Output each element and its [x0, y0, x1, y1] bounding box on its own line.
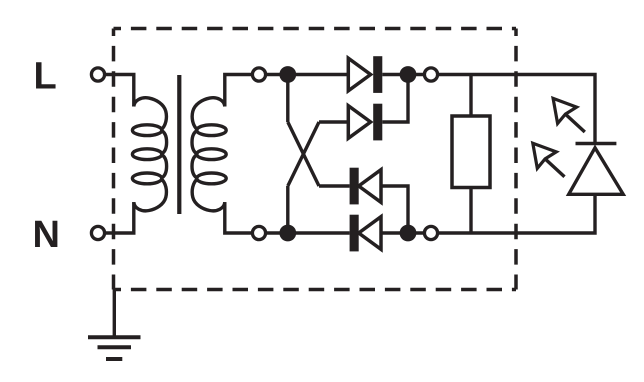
wire secondary bottom to bridge: [225, 202, 350, 233]
wire D3 anode down to node minus: [381, 186, 408, 233]
resistor R1 body: [452, 116, 490, 188]
diode D4 triangle: [359, 217, 381, 250]
wire D2 cathode up to node plus: [382, 75, 408, 123]
diode D3 triangle: [359, 170, 381, 203]
diode D1 cathode bar: [373, 56, 382, 93]
LED D5 triangle: [569, 148, 624, 195]
junction dot node plus: [400, 66, 417, 83]
transformer core: [177, 75, 181, 214]
transformer T1 secondary winding: [192, 98, 226, 211]
transformer T1 primary winding: [132, 98, 166, 211]
terminal output plus: [424, 68, 437, 81]
wire to D3 cathode: [319, 184, 350, 187]
wire crossover diagonal A: [288, 122, 319, 186]
ground bar 3: [106, 357, 122, 361]
junction dot node minus: [400, 225, 417, 242]
ground bar 1: [88, 335, 141, 339]
LED light arrow 2 head: [533, 143, 557, 168]
terminal N: [91, 226, 104, 239]
LED light arrow 2 shaft: [545, 159, 564, 177]
wire to D2 anode: [319, 120, 348, 123]
ground stem: [113, 290, 116, 338]
LED light arrow 1 head: [553, 98, 577, 123]
wire L lead: [105, 75, 134, 107]
wire D4 anode to node minus: [381, 231, 408, 234]
dashed enclosure box: [114, 29, 517, 290]
diode D4 cathode bar: [350, 215, 359, 252]
wire crossover bottom-left vertical: [286, 186, 289, 233]
ground bar 2: [98, 345, 132, 349]
wire negative rail: [408, 194, 595, 233]
svg-text:N: N: [33, 214, 60, 256]
diode D1 triangle: [348, 58, 370, 91]
diode D2 triangle: [348, 106, 370, 139]
terminal L: [91, 68, 104, 81]
terminal secondary bottom: [252, 226, 265, 239]
junction dot top AC node: [279, 66, 296, 83]
svg-text:L: L: [34, 56, 57, 98]
wire secondary top to bridge: [225, 75, 348, 107]
wire crossover diagonal B: [288, 122, 319, 186]
wire N lead: [105, 202, 134, 233]
diode D2 cathode bar: [373, 104, 382, 141]
wire D1 to node plus: [382, 73, 408, 76]
terminal output minus: [424, 226, 437, 239]
LED D5 cathode bar: [576, 142, 617, 145]
resistor R1 lead top: [469, 75, 472, 117]
terminal secondary top: [252, 68, 265, 81]
wire crossover top-left vertical: [286, 75, 289, 123]
diode D3 cathode bar: [350, 168, 359, 205]
wire positive rail: [408, 75, 595, 144]
LED light arrow 1 shaft: [565, 114, 584, 132]
junction dot bottom AC node: [279, 225, 296, 242]
resistor R1 lead bottom: [469, 188, 472, 234]
